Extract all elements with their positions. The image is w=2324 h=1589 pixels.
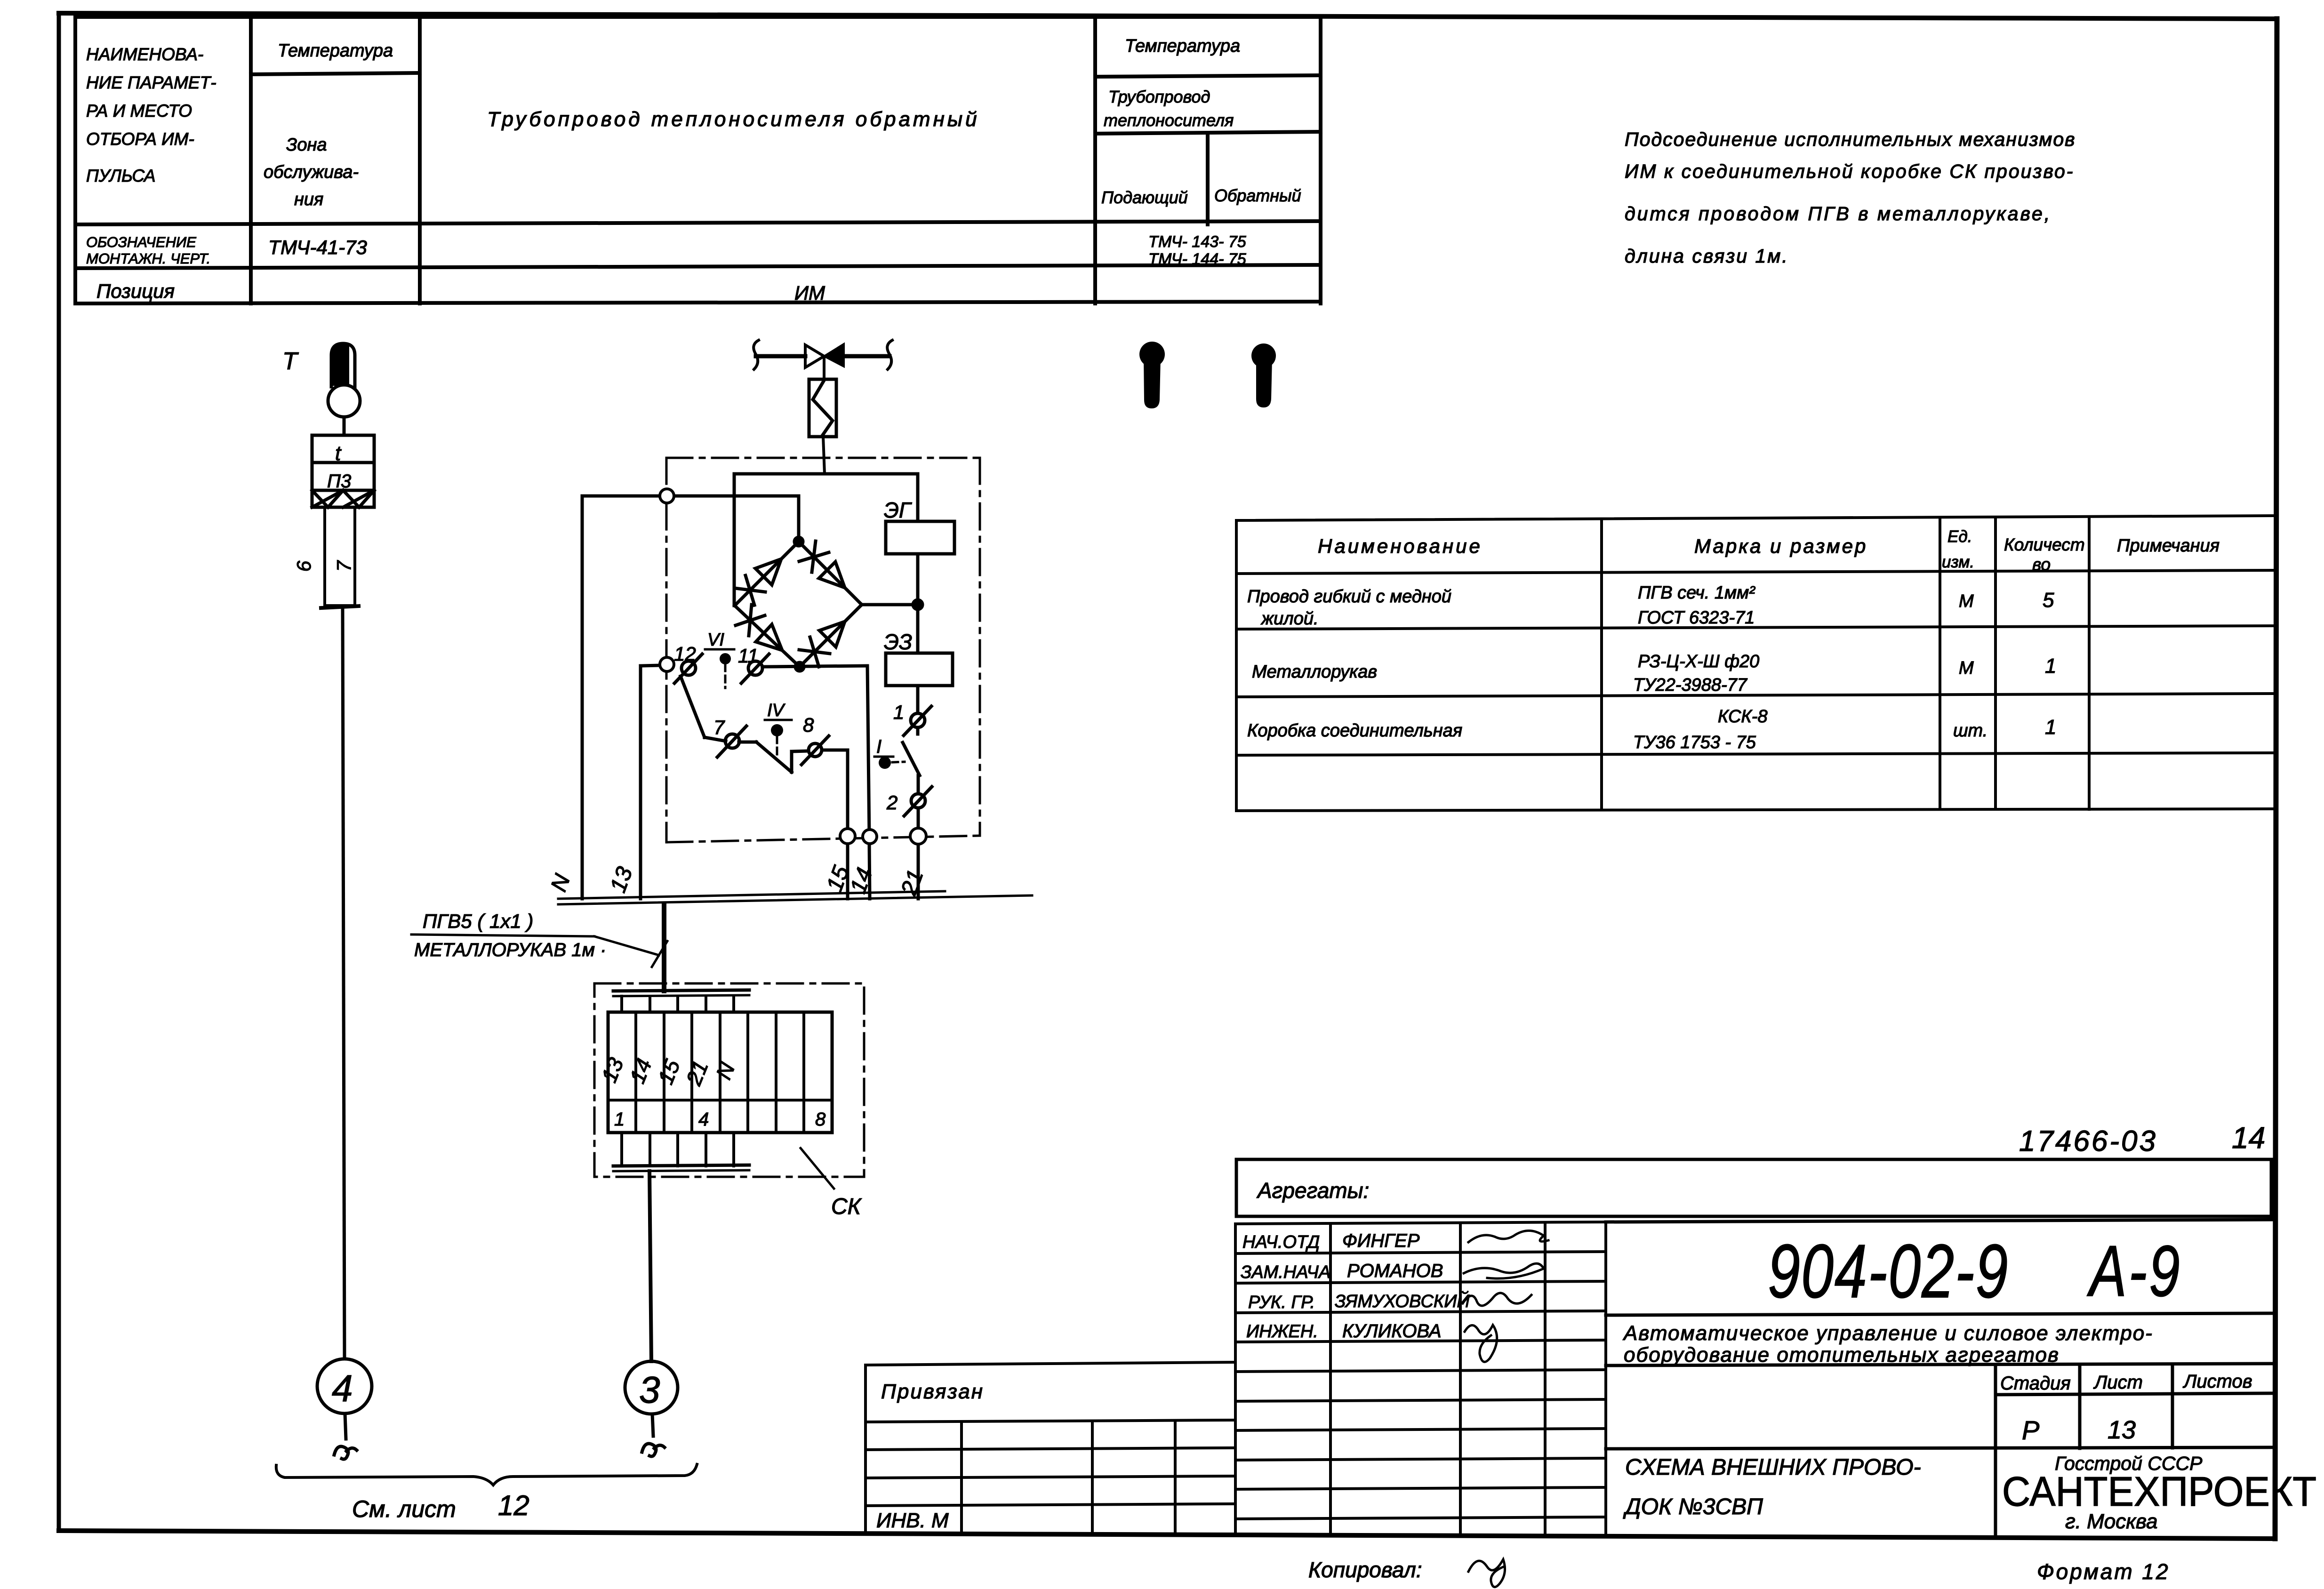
device IM dash-dot boundary <box>666 458 980 842</box>
svg-text:Подающий: Подающий <box>1101 188 1188 207</box>
wire: node A to bridge AC top vertex <box>797 496 801 542</box>
contact terminal 1 <box>904 706 931 735</box>
Привязан box and grid <box>865 1362 1235 1532</box>
svg-text:Провод гибкий с медной: Провод гибкий с медной <box>1247 587 1451 607</box>
svg-text:t: t <box>335 442 342 465</box>
svg-text:ЭЗ: ЭЗ <box>884 630 912 654</box>
relay coil EZ (ЭЗ) <box>884 630 953 686</box>
signatures squiggles <box>1463 1230 1548 1362</box>
wire <box>343 417 346 435</box>
parts table <box>1236 516 2276 811</box>
wire: net 13 <box>641 665 659 666</box>
svg-text:ЗАМ.НАЧА: ЗАМ.НАЧА <box>1241 1262 1330 1282</box>
bus: floor duct double line <box>558 891 1032 904</box>
svg-text:ТМЧ- 143- 75: ТМЧ- 143- 75 <box>1148 233 1246 251</box>
svg-text:Автоматическое управление и си: Автоматическое управление и силовое элек… <box>1622 1322 2153 1345</box>
svg-text:Подсоединение исполнительных м: Подсоединение исполнительных механизмов <box>1625 128 2076 150</box>
svg-text:НАИМЕНОВА-: НАИМЕНОВА- <box>86 45 203 64</box>
valve body right triangle (filled) <box>824 344 844 367</box>
note text top right <box>1625 128 2076 267</box>
parameter table header texts <box>85 36 1301 304</box>
clamp contacts <box>674 654 932 816</box>
junction dot: bridge bottom vertex <box>795 663 804 671</box>
svg-text:Трубопровод теплоносителя об: Трубопровод теплоносителя обратный <box>487 108 980 131</box>
svg-text:1: 1 <box>2045 655 2056 678</box>
parameter table grid <box>75 17 1321 303</box>
svg-text:ЗЯМУХОВСКИЙ: ЗЯМУХОВСКИЙ <box>1335 1291 1470 1311</box>
wire: drop to relay EG <box>916 474 920 521</box>
svg-text:Агрегаты:: Агрегаты: <box>1256 1178 1369 1203</box>
svg-text:А-9: А-9 <box>2087 1230 2182 1311</box>
svg-text:ОТБОРА ИМ-: ОТБОРА ИМ- <box>86 129 194 149</box>
svg-text:Коробка соединительная: Коробка соединительная <box>1247 721 1462 741</box>
wire: net N horizontal segment to bridge <box>582 495 799 498</box>
wire: contact 7 to blade IV <box>739 741 756 744</box>
svg-text:Обратный: Обратный <box>1214 186 1301 205</box>
svg-text:ния: ния <box>294 190 323 209</box>
switch blade IV <box>756 742 792 772</box>
ink blot mark 1 <box>1139 342 1165 408</box>
svg-text:2: 2 <box>886 791 898 814</box>
svg-text:ИНВ. М: ИНВ. М <box>876 1509 949 1532</box>
node: open terminal on net N at IM boundary <box>660 489 674 503</box>
bridge arm left-top <box>735 542 799 606</box>
svg-text:г. Москва: г. Москва <box>2065 1510 2158 1533</box>
svg-text:См. лист: См. лист <box>352 1496 456 1522</box>
svg-text:ТУ22-3988-77: ТУ22-3988-77 <box>1633 675 1748 695</box>
wire: net 15 to bus <box>846 843 849 899</box>
svg-text:17466-03: 17466-03 <box>2019 1125 2157 1158</box>
wire: bridge DC right vertex to node B <box>862 603 918 607</box>
svg-text:РЗ-Ц-Х-Ш ф20: РЗ-Ц-Х-Ш ф20 <box>1638 652 1759 671</box>
wire: contact 1 stub <box>916 727 920 734</box>
svg-text:КСК-8: КСК-8 <box>1718 707 1768 727</box>
svg-text:1: 1 <box>2045 716 2056 739</box>
svg-text:6: 6 <box>293 560 315 572</box>
cable label PGV5(1x1) / metal hose 1m with leader <box>411 910 667 967</box>
relay coil EG (ЭГ) <box>884 498 954 554</box>
diode VD3 bottom-left <box>756 624 782 650</box>
contact terminal 12 <box>674 654 702 683</box>
svg-text:Количест: Количест <box>2004 535 2085 554</box>
bridge arm bottom-right <box>800 605 862 667</box>
svg-text:изм.: изм. <box>1942 553 1974 571</box>
wire: net 21 down to terminal <box>917 808 920 829</box>
svg-text:САНТЕХПРОЕКТ: САНТЕХПРОЕКТ <box>2002 1468 2316 1515</box>
valve body left triangle <box>805 345 824 367</box>
svg-text:IV: IV <box>767 701 786 720</box>
svg-text:П3: П3 <box>327 471 351 492</box>
control valve on pipeline <box>753 340 892 379</box>
svg-text:Металлорукав: Металлорукав <box>1252 662 1377 682</box>
svg-text:РОМАНОВ: РОМАНОВ <box>1347 1261 1443 1281</box>
svg-text:НАЧ.ОТД: НАЧ.ОТД <box>1242 1232 1320 1252</box>
bottom annotations <box>1308 1557 2170 1584</box>
svg-text:1: 1 <box>614 1109 625 1130</box>
Агрегаты box <box>1236 1159 2271 1216</box>
title block right part <box>1606 1220 2276 1534</box>
svg-text:ТМЧ- 144- 75: ТМЧ- 144- 75 <box>1148 250 1246 268</box>
svg-text:обслужива-: обслужива- <box>264 162 359 182</box>
junction dot: bridge top vertex <box>794 537 803 546</box>
node: open terminal on net 13 at IM boundary <box>660 657 674 671</box>
svg-text:1: 1 <box>893 701 904 723</box>
svg-text:КУЛИКОВА: КУЛИКОВА <box>1342 1321 1442 1341</box>
thermometer bulb <box>331 343 355 387</box>
svg-text:длина связи 1м.: длина связи 1м. <box>1625 245 1789 267</box>
electric actuator IM (zigzag box) <box>809 379 836 474</box>
svg-text:ИМ: ИМ <box>794 282 825 304</box>
svg-text:ТУ36 1753 - 75: ТУ36 1753 - 75 <box>1633 733 1756 752</box>
svg-text:Стадия: Стадия <box>2000 1373 2071 1394</box>
svg-text:4: 4 <box>698 1109 709 1130</box>
svg-text:РУК. ГР.: РУК. ГР. <box>1248 1293 1315 1312</box>
svg-text:М: М <box>1959 591 1974 611</box>
svg-text:ФИНГЕР: ФИНГЕР <box>1342 1230 1420 1251</box>
svg-text:Копировал:: Копировал: <box>1308 1557 1422 1582</box>
stem down <box>823 356 825 379</box>
pipe line with break hooks <box>753 340 759 369</box>
svg-text:ЭГ: ЭГ <box>884 498 912 522</box>
svg-text:Примечания: Примечания <box>2117 536 2220 556</box>
svg-text:Температура: Температура <box>1125 36 1240 56</box>
svg-text:11: 11 <box>738 645 759 667</box>
terminal numbers of CK <box>596 1054 826 1130</box>
bottom tick <box>321 606 359 608</box>
switch blade of contact I <box>903 743 920 775</box>
svg-text:I: I <box>876 736 882 757</box>
diode VD1 top-left <box>755 559 781 585</box>
stem rectangle <box>325 507 355 606</box>
diode VD4 bottom-right <box>819 622 845 647</box>
svg-text:5: 5 <box>2043 589 2054 612</box>
svg-text:ДОК №3СВП: ДОК №3СВП <box>1623 1494 1763 1519</box>
svg-text:СК: СК <box>831 1194 862 1219</box>
svg-text:Р: Р <box>2022 1415 2039 1445</box>
svg-text:ОБОЗНАЧЕНИЕ: ОБОЗНАЧЕНИЕ <box>86 234 196 250</box>
svg-text:14: 14 <box>2232 1121 2265 1155</box>
device box t/П3 <box>312 435 374 507</box>
svg-text:Температура: Температура <box>278 41 393 61</box>
bus wire labels <box>546 862 929 899</box>
svg-text:во: во <box>2032 555 2051 574</box>
svg-text:жилой.: жилой. <box>1260 609 1319 629</box>
diode VD2 top-right <box>819 562 845 588</box>
wire: bridge feed top horizontal <box>734 472 918 476</box>
svg-text:13: 13 <box>2108 1416 2136 1444</box>
svg-text:8: 8 <box>815 1109 826 1130</box>
wire: left drop to bridge left vertex <box>733 474 736 606</box>
svg-text:ИНЖЕН.: ИНЖЕН. <box>1246 1322 1318 1341</box>
svg-text:М: М <box>1959 658 1974 678</box>
junction dot: node B <box>913 600 922 609</box>
terminal: net 14 at IM boundary <box>863 830 877 844</box>
wire: relay EG to node B <box>916 554 920 653</box>
svg-text:4: 4 <box>332 1367 353 1409</box>
svg-text:3: 3 <box>639 1369 660 1411</box>
svg-text:шт.: шт. <box>1953 721 1987 741</box>
junction box CK dash-dot boundary <box>594 983 864 1177</box>
svg-text:Марка и размер: Марка и размер <box>1694 535 1867 557</box>
contact terminal 11 <box>741 654 769 683</box>
svg-text:12: 12 <box>674 643 696 665</box>
bridge arm top-right <box>799 542 862 605</box>
svg-text:ПГВ сеч. 1мм²: ПГВ сеч. 1мм² <box>1638 583 1755 603</box>
labels of contacts and limit switches <box>674 630 905 814</box>
long wire down to (4) <box>343 608 345 1358</box>
svg-text:Формат 12: Формат 12 <box>2037 1559 2170 1584</box>
terminal: net 15 at IM boundary <box>840 829 855 844</box>
bridge arm left-bottom <box>735 606 800 667</box>
svg-text:Листов: Листов <box>2182 1371 2252 1392</box>
svg-text:Привязан: Привязан <box>881 1380 984 1403</box>
svg-text:ТМЧ-41-73: ТМЧ-41-73 <box>268 236 367 258</box>
svg-text:Позиция: Позиция <box>96 280 175 302</box>
svg-text:Трубопровод: Трубопровод <box>1108 87 1210 106</box>
svg-text:ПУЛЬСА: ПУЛЬСА <box>86 166 156 185</box>
contact terminal 7 <box>717 726 746 757</box>
svg-text:Т: Т <box>282 348 299 375</box>
switch blade VI from contact 12 <box>681 676 705 737</box>
wire: net 14 vertical <box>867 666 869 836</box>
svg-text:МОНТАЖН. ЧЕРТ.: МОНТАЖН. ЧЕРТ. <box>86 250 210 267</box>
wire: CK down to sensor circle 3 <box>649 1171 651 1361</box>
svg-text:дится проводом ПГВ в металлору: дится проводом ПГВ в металлорукаве, <box>1625 203 2052 224</box>
svg-text:Наименование: Наименование <box>1318 535 1483 557</box>
title block signature table <box>1235 1222 1606 1533</box>
cable: PGV5 down to junction box CK <box>662 905 666 991</box>
circuit wires <box>582 474 920 899</box>
wire: contact 8 to net 15 vertical <box>822 749 848 752</box>
ink blot mark 2 <box>1251 343 1276 407</box>
svg-text:8: 8 <box>803 714 814 736</box>
svg-text:Зона: Зона <box>286 135 327 155</box>
svg-text:12: 12 <box>498 1490 529 1521</box>
label CK with leader <box>801 1148 862 1219</box>
sensor circle 4 with pigtail <box>317 1359 372 1459</box>
thermometer assembly T <box>282 343 374 1358</box>
wire: net N vertical drop to bus <box>581 496 584 899</box>
terminal block of CK <box>608 990 832 1171</box>
svg-text:ПГВ5 ( 1х1 ): ПГВ5 ( 1х1 ) <box>423 910 533 932</box>
svg-text:Лист: Лист <box>2093 1372 2143 1393</box>
svg-text:оборудование отопительных агре: оборудование отопительных агрегатов <box>1624 1343 2060 1366</box>
sensor circle 3 with pigtail <box>625 1361 678 1456</box>
svg-text:ГОСТ 6323-71: ГОСТ 6323-71 <box>1638 608 1755 628</box>
svg-text:VI: VI <box>707 630 724 650</box>
svg-text:7: 7 <box>333 560 355 572</box>
svg-text:7: 7 <box>713 716 725 738</box>
contact terminal 2 <box>904 787 932 816</box>
brace and note "См. лист 12" <box>276 1464 697 1522</box>
svg-text:904-02-9: 904-02-9 <box>1768 1229 2009 1313</box>
diode bridge rectifier <box>735 537 922 671</box>
svg-text:ИМ к соединительной коробке СК: ИМ к соединительной коробке СК произво- <box>1625 160 2074 182</box>
wire: relay EZ to contact 1 <box>916 686 920 713</box>
wire: net 14 to bus <box>869 844 870 899</box>
svg-text:МЕТАЛЛОРУКАВ 1м ·: МЕТАЛЛОРУКАВ 1м · <box>414 940 606 960</box>
svg-text:теплоносителя: теплоносителя <box>1104 111 1234 130</box>
terminal: net 21 at IM boundary <box>910 828 926 844</box>
sensor circle <box>328 385 360 417</box>
svg-text:РА И МЕСТО: РА И МЕСТО <box>86 101 192 120</box>
contact terminal 8 <box>801 736 829 765</box>
svg-text:Ед.: Ед. <box>1947 527 1972 546</box>
wire: contact 11 to bridge bottom vertex to net 14 corner <box>762 666 866 667</box>
svg-text:НИЕ ПАРАМЕТ-: НИЕ ПАРАМЕТ- <box>86 73 216 92</box>
svg-text:СХЕМА ВНЕШНИХ ПРОВО-: СХЕМА ВНЕШНИХ ПРОВО- <box>1625 1455 1921 1480</box>
